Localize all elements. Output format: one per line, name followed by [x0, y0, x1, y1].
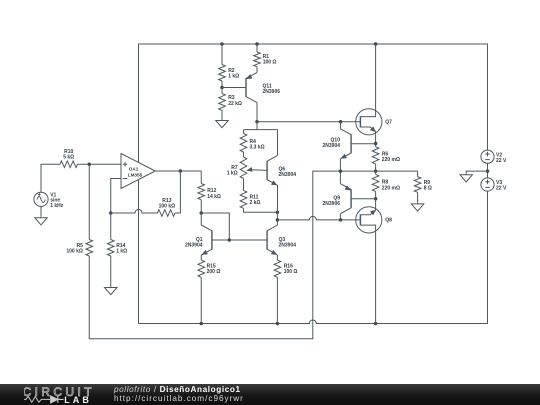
R7 wiper arrow: [247, 168, 252, 172]
wire output to R9: [376, 171, 418, 177]
wire mid rail: [257, 121, 361, 123]
wire V1 bottom: [40, 206, 42, 216]
transistor Q3: [266, 231, 268, 250]
wire R4 upper: [243, 130, 245, 134]
wire Q6 collector: [277, 130, 279, 156]
node R6/R8 output: [374, 169, 378, 173]
svg-text:100 kΩ: 100 kΩ: [66, 249, 83, 255]
wire Q9 base: [351, 198, 376, 200]
transistor Q7 (power NPN): [356, 109, 382, 135]
node mid rail / Q10 collector: [339, 120, 343, 124]
potentiometer R7: [240, 157, 247, 179]
wire R13 to output: [175, 171, 180, 213]
resistor R10: [60, 161, 78, 168]
wire Q11 base: [222, 87, 246, 89]
wire right rail bottom: [487, 191, 489, 324]
wire mirror bases: [229, 239, 267, 241]
Q6 emitter arrow: [272, 181, 277, 185]
resistor R15: [198, 260, 205, 277]
transistor Q8 (power, flipped): [356, 207, 382, 233]
wire R12 lower: [200, 200, 202, 213]
Q10 emitter arrow: [341, 154, 346, 158]
wire R5 to bottom rail 2: [89, 171, 313, 339]
wire R1 to Q11 emitter: [256, 67, 258, 73]
svg-text:Q8: Q8: [385, 218, 392, 224]
Q7 emitter arrow: [371, 127, 376, 131]
wire Q1 base tie: [201, 213, 229, 240]
wire stub to R4 feed: [256, 122, 258, 130]
svg-text:2N3906: 2N3906: [322, 201, 340, 207]
wire R3 lower: [221, 110, 223, 119]
wire R2 upper: [221, 44, 223, 65]
transistor Q1: [211, 231, 213, 250]
resistor R11: [240, 191, 247, 209]
wire left rail lower (op-amp V- down): [138, 180, 140, 324]
wire Q6e to Q3c: [276, 212, 278, 225]
CircuitLab logo: [24, 384, 124, 405]
op-amp OA1 body: [121, 154, 155, 189]
wire R6 lower: [375, 164, 377, 171]
ground R3: [221, 119, 223, 121]
node V2/V3 ground tap: [486, 169, 490, 173]
svg-text:14 kΩ: 14 kΩ: [207, 194, 221, 200]
op-amp + mark: [123, 162, 127, 166]
node bottom rail / R16: [276, 322, 280, 326]
ground R9: [417, 202, 419, 204]
wire Q6 emitter down: [277, 185, 279, 212]
wire bottom negative rail: [139, 320, 488, 324]
svg-text:22 V: 22 V: [496, 158, 507, 164]
svg-text:2N3904: 2N3904: [322, 143, 340, 149]
wire Q9 emitter: [339, 171, 341, 184]
wire Q1 emitter: [200, 255, 202, 260]
wire R2-R3: [221, 88, 223, 94]
transistor Q6: [266, 161, 268, 180]
svg-text:2N3904: 2N3904: [185, 243, 203, 249]
svg-text:100 kΩ: 100 kΩ: [159, 204, 176, 210]
svg-text:220 mΩ: 220 mΩ: [382, 185, 400, 191]
svg-text:1 kΩ: 1 kΩ: [116, 249, 127, 255]
wire Q3 emitter: [276, 255, 278, 260]
svg-text:2N3906: 2N3906: [263, 89, 281, 95]
resistor R16: [274, 260, 281, 277]
svg-text:OA1: OA1: [129, 167, 139, 172]
wire output: [155, 170, 201, 172]
svg-text:2N3904: 2N3904: [279, 172, 297, 178]
Q3 emitter arrow: [272, 251, 277, 255]
svg-text:5 kΩ: 5 kΩ: [63, 155, 74, 161]
resistor squiggle: [23, 397, 50, 403]
wire R11 to Q6 emitter: [244, 208, 278, 212]
resistor R6: [372, 147, 379, 164]
svg-text:220 mΩ: 220 mΩ: [382, 157, 400, 163]
wire R8 lower: [375, 191, 377, 198]
wire Q1 base: [212, 239, 229, 241]
svg-text:1 kΩ: 1 kΩ: [227, 171, 238, 177]
wire R1 upper: [256, 44, 258, 52]
node R12 / Q1 collector: [200, 211, 204, 215]
wire V1 top to R10: [41, 164, 60, 192]
svg-text:1 kHz: 1 kHz: [50, 203, 64, 209]
diode: [51, 396, 58, 403]
svg-text:Q7: Q7: [385, 120, 392, 126]
svg-text:3.3 kΩ: 3.3 kΩ: [250, 145, 265, 151]
wire right rail top: [487, 44, 489, 151]
node bottom rail / R15: [200, 322, 204, 326]
node top rail / Q7 collector: [374, 42, 378, 46]
wire output node row: [313, 170, 376, 172]
wire op-amp - input: [111, 179, 121, 214]
voltage source V2: [481, 150, 494, 163]
node output / R13: [179, 169, 183, 173]
ground R14: [110, 286, 112, 288]
wire R8 upper: [375, 171, 377, 174]
node R8 / Q9 base / Q8: [374, 197, 378, 201]
node Q7 emitter / Q10 base: [374, 142, 378, 146]
ground supply mid: [465, 173, 467, 175]
Q1 emitter arrow: [202, 251, 207, 255]
op-amp - mark: [123, 178, 127, 180]
Q8 emitter arrow (points up): [371, 210, 376, 214]
resistor R2: [219, 65, 226, 82]
wire Q1 collector: [200, 213, 202, 225]
svg-text:2N3904: 2N3904: [279, 243, 297, 249]
wire Q10 collector: [339, 122, 341, 129]
transistor Q11 (PNP): [245, 78, 247, 97]
resistor R13: [158, 210, 176, 217]
resistor R14: [107, 240, 114, 257]
wire R4/Q6 feed: [244, 129, 278, 131]
wire R10 to op-amp +: [78, 163, 122, 165]
wire R4-R7: [243, 152, 245, 157]
node Q9 collector on drive wire: [339, 218, 343, 222]
resistor R4: [240, 134, 247, 153]
Q9 emitter arrow: [345, 186, 350, 190]
transistor Q10: [350, 134, 352, 153]
wire V2-V3: [487, 163, 489, 178]
svg-text:LAB: LAB: [64, 395, 92, 405]
node Q3 collector / drive: [276, 218, 280, 222]
wire R13 left with hop: [111, 210, 158, 213]
wire left rail upper (to op-amp V+): [138, 44, 140, 163]
wire top positive rail: [139, 43, 488, 45]
transistor Q9 (PNP): [350, 189, 352, 208]
voltage source V3: [481, 178, 494, 191]
wire R7-R11: [243, 179, 245, 191]
wire Q9 collector: [339, 214, 341, 220]
wire R2 lower: [221, 81, 223, 88]
wire R14 upper: [110, 213, 112, 240]
voltage source V1: [34, 192, 48, 206]
credit text: [114, 385, 244, 404]
svg-text:LM358: LM358: [128, 172, 143, 177]
resistor R3: [219, 94, 226, 111]
svg-text:100 Ω: 100 Ω: [284, 269, 298, 275]
ground V1: [40, 216, 42, 218]
svg-text:8 Ω: 8 Ω: [424, 186, 432, 192]
Q11 emitter arrow: [247, 75, 252, 79]
wire drive to Q8 base with hop: [277, 216, 360, 220]
node Q1 base/collector tie: [228, 238, 232, 242]
svg-text:100 Ω: 100 Ω: [263, 59, 277, 65]
wire R15 lower: [200, 277, 202, 323]
node top rail / R2: [220, 42, 224, 46]
node bottom rail / Q8 collector: [374, 322, 378, 326]
node Q11 collector rail: [255, 120, 259, 124]
wire R9 lower: [417, 192, 419, 202]
node Q9/Q10 emitters: [339, 169, 343, 173]
node Q11 base: [220, 86, 224, 90]
wire to supply ground: [466, 171, 487, 173]
resistor R1: [254, 52, 261, 67]
resistor R5: [86, 240, 93, 257]
wire Q11 collector: [256, 103, 258, 122]
svg-text:200 Ω: 200 Ω: [207, 269, 221, 275]
svg-text:22 V: 22 V: [496, 186, 507, 192]
node +input / R5: [88, 163, 92, 167]
wire R14 lower: [110, 256, 112, 286]
svg-text:22 kΩ: 22 kΩ: [228, 101, 242, 107]
node R11 / Q6 emitter: [276, 211, 280, 215]
svg-text:1 kΩ: 1 kΩ: [228, 73, 239, 79]
node top rail / R1: [255, 42, 259, 46]
wire output to R12: [200, 171, 202, 184]
node feedback / R14: [109, 211, 113, 215]
wire R16 lower: [276, 277, 278, 323]
footer bar: [0, 384, 540, 405]
svg-text:2 kΩ: 2 kΩ: [250, 200, 261, 206]
wire Q10 emitter: [339, 159, 341, 171]
resistor R9: [414, 177, 421, 193]
resistor R8: [372, 174, 379, 191]
wire Q10 base: [351, 143, 376, 145]
resistor R12: [198, 184, 205, 200]
wire R5 upper: [88, 164, 90, 239]
